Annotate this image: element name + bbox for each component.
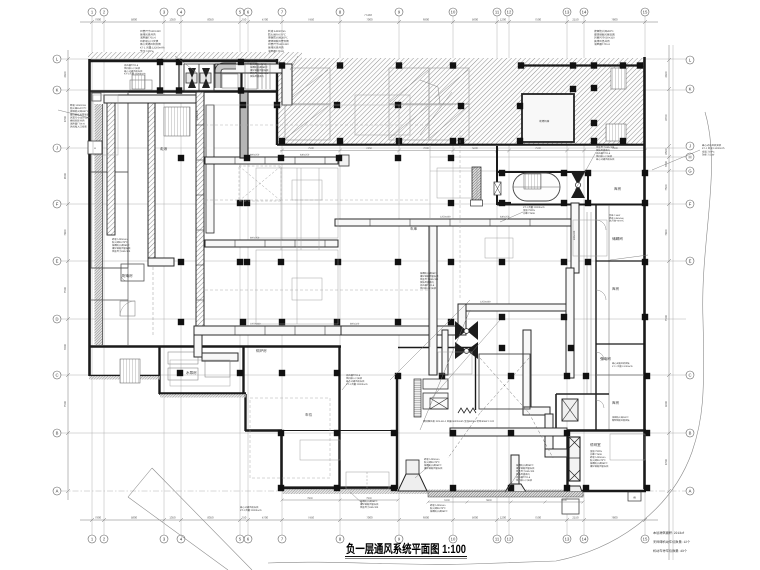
svg-text:全压:720Pa: 全压:720Pa [523, 209, 536, 212]
svg-text:离心式通风机安装: 离心式通风机安装 [346, 380, 365, 383]
svg-text:3600: 3600 [63, 71, 67, 78]
svg-text:接排风竖井内: 接排风竖井内 [516, 473, 530, 476]
svg-text:防火阀FH/70℃: 防火阀FH/70℃ [430, 507, 446, 510]
annotation SE equipment note [516, 464, 535, 482]
svg-text:C: C [55, 373, 58, 378]
svg-text:630x250: 630x250 [300, 154, 310, 157]
svg-text:12: 12 [507, 537, 512, 542]
stair block hatch right lower [606, 124, 626, 141]
svg-text:消声器T701-6: 消声器T701-6 [420, 284, 435, 287]
light partitions center bays [93, 95, 645, 460]
svg-text:2150: 2150 [572, 516, 579, 520]
svg-text:7500: 7500 [664, 314, 668, 321]
left vertical duct [148, 97, 155, 264]
svg-text:1250x400: 1250x400 [440, 216, 451, 219]
supply fans in mech room [188, 68, 210, 88]
small box A on left wall [88, 141, 102, 154]
svg-text:D: D [55, 317, 58, 322]
ramp area hatch region [277, 58, 645, 145]
horizontal duct branch 1 [205, 157, 338, 164]
svg-text:KT-1 风量:13200m³/h: KT-1 风量:13200m³/h [612, 365, 633, 368]
svg-text:风管尺寸630×320: 风管尺寸630×320 [596, 146, 615, 149]
svg-text:E: E [56, 259, 59, 264]
dimension line right [667, 45, 671, 560]
duct riser center (from H4 down) [429, 226, 437, 375]
svg-text:13: 13 [565, 537, 570, 542]
svg-text:1200: 1200 [500, 516, 507, 520]
duct riser center 2 [442, 330, 448, 375]
svg-text:800x400: 800x400 [573, 230, 576, 240]
fan room inner partition [479, 354, 530, 409]
left duct elbow [148, 258, 174, 266]
svg-text:7900: 7900 [95, 516, 102, 520]
svg-text:功率:7.5kW: 功率:7.5kW [702, 153, 715, 157]
annotation block top 2 [268, 29, 289, 53]
svg-text:7800: 7800 [63, 343, 67, 350]
svg-text:排烟防火阀280℃: 排烟防火阀280℃ [112, 244, 130, 247]
stair block hatch right upper [611, 68, 626, 89]
horizontal duct mid-right [335, 219, 571, 226]
svg-text:8700: 8700 [63, 115, 67, 122]
svg-text:消声器T701-6: 消声器T701-6 [124, 64, 139, 67]
svg-text:7500: 7500 [366, 497, 372, 500]
svg-text:5600: 5600 [472, 516, 479, 520]
svg-text:7900: 7900 [95, 18, 102, 22]
bay divider lines center [281, 168, 319, 250]
svg-text:4700: 4700 [262, 18, 269, 22]
svg-text:排烟防火阀280℃: 排烟防火阀280℃ [420, 272, 438, 275]
annotation block top right [594, 29, 615, 46]
site boundary curve [268, 112, 712, 564]
site boundary diagonals bottom left [128, 468, 252, 570]
svg-text:1350: 1350 [169, 18, 176, 22]
svg-text:5600: 5600 [472, 18, 479, 22]
elevator lobby oval [513, 173, 560, 201]
louver band bottom [428, 492, 583, 498]
garage stall rect pair [346, 472, 389, 489]
axis bubbles left [53, 55, 61, 495]
svg-text:4700: 4700 [262, 516, 269, 520]
annotation block left margin [70, 103, 90, 129]
leader lines [58, 56, 700, 504]
svg-text:800x250: 800x250 [250, 154, 260, 157]
svg-text:机动车停车位数量: 43个: 机动车停车位数量: 43个 [653, 549, 688, 553]
svg-text:5800: 5800 [131, 516, 138, 520]
svg-text:风管尺寸630×320: 风管尺寸630×320 [112, 250, 131, 253]
fan room east duct riser [523, 330, 531, 412]
dimension line bottom [80, 518, 658, 522]
svg-text:风机吸入口安装: 风机吸入口安装 [346, 377, 363, 380]
svg-text:800x320: 800x320 [350, 323, 360, 326]
svg-text:风管尺寸630×320: 风管尺寸630×320 [420, 278, 439, 281]
dashed service lines [205, 130, 460, 478]
horizontal duct lower-right [458, 304, 571, 311]
annotation fan room note [424, 458, 443, 470]
annotation block mech room [124, 64, 146, 76]
svg-text:水泵房: 水泵房 [186, 370, 197, 375]
duct elbow to smoke room [545, 449, 567, 457]
columns [157, 59, 650, 491]
svg-text:无障碍机动车位数量: 12个: 无障碍机动车位数量: 12个 [653, 540, 691, 544]
corridor duct below mech room [104, 95, 196, 103]
svg-text:功率:7.5kW: 功率:7.5kW [523, 212, 536, 215]
svg-text:5000: 5000 [561, 499, 567, 502]
svg-text:镀锌钢板风管安装: 镀锌钢板风管安装 [250, 69, 269, 72]
left corridor vertical duct [107, 103, 115, 235]
svg-text:14: 14 [582, 537, 587, 542]
svg-text:功率:7.5kW: 功率:7.5kW [609, 214, 621, 217]
svg-text:8700: 8700 [664, 114, 668, 121]
svg-text:风机吸入口安装: 风机吸入口安装 [596, 155, 613, 158]
svg-text:镀锌钢板风管安装: 镀锌钢板风管安装 [612, 419, 630, 422]
svg-text:转速:1450r/min: 转速:1450r/min [112, 238, 128, 241]
svg-text:1200: 1200 [500, 18, 507, 22]
fan room duct elbow east [523, 407, 550, 415]
AHU boxes fan room [423, 379, 448, 389]
svg-text:KT-1 风量:13200m³/h: KT-1 风量:13200m³/h [240, 509, 262, 512]
svg-text:排烟防火阀280℃: 排烟防火阀280℃ [516, 464, 534, 467]
discharge bell bottom center [398, 474, 427, 491]
svg-text:风管尺寸630×320: 风管尺寸630×320 [516, 470, 535, 473]
svg-text:7800: 7800 [611, 516, 618, 520]
svg-text:C: C [688, 373, 691, 378]
svg-text:7450: 7450 [308, 516, 315, 520]
bottom right area notes [653, 531, 691, 553]
svg-text:5800: 5800 [486, 499, 492, 502]
svg-text:7800: 7800 [63, 229, 67, 236]
svg-text:镀锌钢板风管安装: 镀锌钢板风管安装 [420, 275, 439, 278]
annotation garage note [346, 374, 368, 386]
svg-text:库房: 库房 [612, 400, 620, 405]
svg-text:F: F [56, 202, 59, 207]
svg-text:630x250: 630x250 [500, 216, 510, 219]
svg-text:7000: 7000 [366, 18, 373, 22]
svg-text:强: 强 [633, 496, 636, 500]
annotation right小 [609, 214, 625, 223]
parallel supply duct segment [206, 105, 214, 233]
zigzag flexible joint [458, 408, 476, 413]
svg-text:11: 11 [495, 10, 500, 15]
ground hatch under bottom edges [89, 104, 572, 494]
svg-text:1350: 1350 [169, 516, 176, 520]
svg-text:7500: 7500 [535, 18, 542, 22]
svg-text:5800: 5800 [131, 18, 138, 22]
stair left upper [164, 107, 190, 136]
svg-text:本层建筑面积: 2213㎡: 本层建筑面积: 2213㎡ [653, 531, 685, 535]
svg-text:KT-1 风量:13200m³/h: KT-1 风量:13200m³/h [346, 383, 368, 386]
svg-text:库房: 库房 [614, 186, 622, 191]
svg-text:镀锌钢板风管安装: 镀锌钢板风管安装 [590, 465, 609, 468]
svg-text:8350: 8350 [207, 18, 214, 22]
svg-text:7450: 7450 [308, 18, 315, 22]
svg-text:防火阀FH/70℃: 防火阀FH/70℃ [609, 220, 625, 223]
svg-text:7500: 7500 [63, 400, 67, 407]
annotation line fan room [423, 419, 495, 423]
svg-text:功率:7.5kW: 功率:7.5kW [590, 453, 603, 456]
svg-text:消声器T701-6: 消声器T701-6 [596, 152, 611, 155]
small shaft box below SE room [562, 499, 579, 514]
svg-text:A: A [94, 147, 96, 150]
axis bubbles bottom [88, 535, 649, 543]
svg-text:750: 750 [242, 516, 247, 520]
svg-text:15: 15 [643, 10, 648, 15]
svg-text:全压:720Pa: 全压:720Pa [140, 49, 154, 53]
dimension line top [80, 20, 658, 24]
svg-text:1000x320: 1000x320 [250, 323, 261, 326]
svg-text:接排风竖井内: 接排风竖井内 [596, 149, 610, 152]
svg-text:坡道机房: 坡道机房 [539, 119, 550, 123]
svg-text:2150: 2150 [572, 18, 579, 22]
svg-text:J: J [689, 144, 691, 149]
svg-text:15: 15 [643, 537, 648, 542]
svg-text:接排烟风机 XPF-B1-2 风量25000m3/h 全压6: 接排烟风机 XPF-B1-2 风量25000m3/h 全压600Pa 功率30k… [423, 419, 495, 423]
svg-text:风机吸入口安装: 风机吸入口安装 [124, 67, 141, 70]
svg-text:转速:1450r/min: 转速:1450r/min [609, 217, 624, 220]
svg-text:接排风竖井内: 接排风竖井内 [420, 281, 434, 284]
svg-text:7450: 7450 [366, 147, 372, 150]
duct along y430 fan room [450, 428, 567, 436]
svg-text:1250x400: 1250x400 [480, 301, 491, 304]
svg-text:全压:720Pa: 全压:720Pa [590, 450, 603, 453]
axis bubbles top [88, 8, 649, 16]
svg-text:6900: 6900 [423, 516, 430, 520]
discharge duct 2 [511, 455, 519, 485]
svg-text:6900: 6900 [423, 18, 430, 22]
svg-text:防火阀FH/70℃: 防火阀FH/70℃ [112, 241, 128, 244]
annotation block stair room [250, 60, 269, 78]
svg-text:排烟防火阀280℃: 排烟防火阀280℃ [360, 500, 378, 503]
svg-text:12: 12 [507, 10, 512, 15]
svg-text:5100: 5100 [444, 499, 450, 502]
svg-text:7800: 7800 [611, 18, 618, 22]
svg-text:风管尺寸630×320: 风管尺寸630×320 [250, 72, 269, 75]
svg-text:离心式通风机安装: 离心式通风机安装 [124, 70, 143, 73]
axis grid horizontal lines [61, 59, 686, 491]
mech room discharge duct [215, 64, 292, 73]
annotation SE room inner [590, 450, 609, 468]
svg-text:消声器T701-6: 消声器T701-6 [268, 49, 285, 53]
svg-text:8700: 8700 [664, 458, 668, 465]
svg-text:排烟防火阀280℃: 排烟防火阀280℃ [424, 464, 442, 467]
svg-text:7500: 7500 [535, 516, 542, 520]
duct elbow connecting [341, 326, 465, 335]
dimension line below hatch [280, 149, 647, 153]
top retaining wall hatch strip [88, 52, 302, 59]
svg-text:KT-1 风量:13200m³/h: KT-1 风量:13200m³/h [124, 73, 146, 76]
exhaust hourglass fan top right [571, 172, 585, 198]
svg-text:消声器T701-6: 消声器T701-6 [594, 42, 611, 46]
louver wall strip fan room [414, 379, 421, 417]
axis bubbles right [686, 56, 694, 495]
svg-text:排烟防火阀280℃: 排烟防火阀280℃ [590, 462, 608, 465]
svg-text:锅炉房: 锅炉房 [256, 348, 267, 353]
dashed plume diagonals [448, 358, 553, 458]
damper box on lobby wall [494, 182, 501, 195]
svg-text:7800: 7800 [307, 497, 313, 500]
machine room in hatch [522, 94, 574, 142]
pump room equipment [168, 352, 230, 380]
svg-text:E: E [689, 259, 692, 264]
door arcs right strip [596, 220, 606, 408]
ceiling grid lines upper bays [205, 104, 453, 106]
supply shaft near lobby [472, 167, 481, 200]
smoke exhaust fan box [562, 399, 578, 421]
svg-text:防火阀FH/70℃: 防火阀FH/70℃ [424, 461, 440, 464]
annotation center-right cluster [420, 272, 439, 290]
left strip interior rooms [91, 92, 128, 345]
svg-text:750: 750 [242, 18, 247, 22]
annotation block below hatch right [596, 146, 615, 161]
svg-text:强电间: 强电间 [600, 356, 611, 361]
svg-text:B: B [689, 431, 692, 436]
svg-text:A: A [56, 489, 59, 494]
svg-text:排烟防火阀280℃: 排烟防火阀280℃ [430, 510, 448, 513]
svg-text:800x250: 800x250 [250, 237, 260, 240]
svg-text:10: 10 [451, 537, 456, 542]
duct flanges [196, 125, 530, 335]
svg-text:排烟防火阀280℃: 排烟防火阀280℃ [612, 416, 630, 419]
small label box 强 [628, 492, 641, 501]
svg-text:10: 10 [451, 10, 456, 15]
svg-text:A: A [689, 489, 692, 494]
mech room riser duct [282, 64, 292, 105]
main vertical supply duct [196, 92, 204, 329]
svg-text:KT-1 风量:13200m³/h: KT-1 风量:13200m³/h [523, 206, 545, 209]
hatch internal wall [520, 64, 640, 66]
svg-text:转速:1450r/min: 转速:1450r/min [590, 456, 606, 459]
svg-text:防火阀FH/70℃: 防火阀FH/70℃ [250, 63, 266, 66]
svg-text:H: H [688, 155, 691, 160]
dimension line left [66, 50, 70, 500]
svg-text:3600: 3600 [664, 400, 668, 407]
svg-text:14: 14 [582, 10, 587, 15]
svg-text:7000: 7000 [423, 147, 429, 150]
duct H1 end fitting [339, 155, 349, 166]
svg-text:F: F [689, 202, 692, 207]
svg-text:走道: 走道 [160, 146, 168, 151]
discharge bell 2 [505, 484, 526, 492]
duct drop grid5 [240, 92, 248, 158]
svg-text:8350: 8350 [207, 516, 214, 520]
svg-text:11: 11 [495, 537, 500, 542]
horizontal duct branch 2 [205, 240, 338, 247]
svg-text:负一层通风系统平面图 1:100: 负一层通风系统平面图 1:100 [346, 542, 466, 556]
parking stall stripes in hatch [285, 68, 469, 140]
building outline walls [89, 57, 646, 492]
svg-text:风管尺寸630×320: 风管尺寸630×320 [360, 506, 379, 509]
svg-text:K: K [689, 87, 692, 92]
duct stub into pump room [202, 353, 238, 361]
svg-text:值班室: 值班室 [590, 442, 601, 447]
svg-text:消声器T701-6: 消声器T701-6 [516, 476, 531, 479]
annotation below garage [360, 500, 379, 509]
SE room exhaust fan unit [569, 437, 580, 481]
annotation text duct mid [523, 206, 545, 215]
small box on wall below mech room [92, 93, 101, 101]
thin pipe pair right [586, 212, 588, 394]
svg-text:B: B [56, 431, 59, 436]
vertical exhaust duct right lower [566, 268, 574, 378]
svg-text:7800: 7800 [664, 229, 668, 236]
bottom sub dimension marks [281, 499, 585, 504]
svg-text:车位: 车位 [305, 412, 313, 417]
svg-text:配电房: 配电房 [122, 273, 133, 278]
svg-text:7500: 7500 [308, 147, 314, 150]
svg-text:转速:1450r/min: 转速:1450r/min [424, 458, 440, 461]
fan unit pair bottom center [455, 321, 478, 359]
duct down segment [545, 414, 553, 453]
svg-text:8500: 8500 [664, 148, 668, 155]
svg-text:5600: 5600 [472, 147, 478, 150]
duct elbow down to pump room [194, 335, 202, 357]
svg-text:K: K [56, 88, 59, 93]
mech room equipment linework [184, 64, 214, 91]
stair lower left [120, 359, 140, 383]
svg-text:储藏间: 储藏间 [612, 236, 623, 241]
svg-text:8500: 8500 [63, 172, 67, 179]
svg-text:镀锌钢板风管安装: 镀锌钢板风管安装 [360, 503, 379, 506]
mech room interior linework [130, 63, 270, 90]
horizontal duct branch 3 [194, 326, 341, 335]
annotation block top 1 [140, 29, 165, 53]
svg-text:转速:1450r/min: 转速:1450r/min [430, 504, 446, 507]
SE room fan bell [566, 486, 583, 495]
svg-text:7500: 7500 [63, 286, 67, 293]
smoke fan room walls [556, 394, 609, 430]
svg-text:库房: 库房 [612, 286, 620, 291]
vertical exhaust duct right upper [571, 203, 579, 273]
annotation bottom center note [240, 506, 262, 512]
svg-text:镀锌钢板风管安装: 镀锌钢板风管安装 [516, 467, 535, 470]
annotation block right margin [702, 143, 725, 157]
room labels [122, 146, 623, 447]
svg-text:77450: 77450 [364, 13, 372, 17]
svg-text:风机吸入口安装: 风机吸入口安装 [420, 287, 437, 290]
svg-text:7500: 7500 [664, 184, 668, 191]
svg-text:630x320: 630x320 [196, 110, 199, 120]
svg-text:转速:1450r/min: 转速:1450r/min [250, 60, 266, 63]
svg-text:接排风竖井内: 接排风竖井内 [250, 75, 264, 78]
svg-text:13: 13 [565, 10, 570, 15]
svg-text:3600: 3600 [664, 71, 668, 78]
svg-text:7500: 7500 [535, 147, 541, 150]
duct size labels [196, 110, 576, 325]
svg-text:7000: 7000 [366, 516, 373, 520]
svg-text:J: J [56, 146, 58, 151]
svg-text:G: G [688, 169, 691, 174]
dashed X bay [239, 166, 281, 201]
axis grid vertical lines [92, 16, 673, 560]
dimension numbers [63, 13, 668, 520]
svg-text:镀锌钢板风管安装: 镀锌钢板风管安装 [424, 467, 443, 470]
power room box left [121, 264, 144, 281]
svg-text:风机吸入口安装: 风机吸入口安装 [70, 125, 87, 129]
svg-text:车库: 车库 [410, 226, 418, 231]
svg-text:镀锌钢板风管安装: 镀锌钢板风管安装 [112, 247, 131, 250]
mech room elbow duct [218, 66, 236, 88]
svg-text:离心式通风机安装: 离心式通风机安装 [240, 506, 259, 509]
svg-text:防火阀FH/70℃: 防火阀FH/70℃ [590, 459, 606, 462]
annotation left mid cluster [112, 238, 131, 253]
svg-text:排烟防火阀280℃: 排烟防火阀280℃ [250, 66, 268, 69]
svg-text:消声器T701-6: 消声器T701-6 [346, 374, 361, 377]
svg-text:离心式通风机安装: 离心式通风机安装 [612, 362, 630, 365]
svg-text:离心式通风机安装: 离心式通风机安装 [596, 158, 615, 161]
svg-text:风机吸入口安装: 风机吸入口安装 [516, 479, 533, 482]
